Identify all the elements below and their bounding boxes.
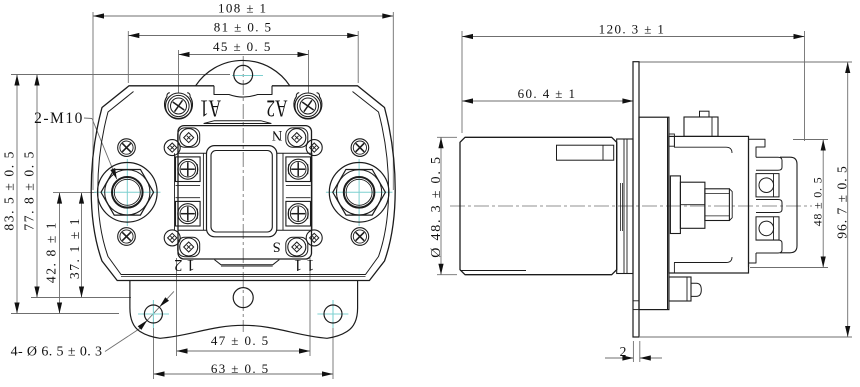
svg-text:108 ± 1: 108 ± 1 [218,1,267,16]
svg-text:60. 4 ± 1: 60. 4 ± 1 [518,86,577,101]
svg-text:Ø 48. 3 ± 0. 5: Ø 48. 3 ± 0. 5 [429,155,444,258]
svg-text:37. 1 ± 1: 37. 1 ± 1 [67,217,82,279]
svg-text:45 ± 0. 5: 45 ± 0. 5 [213,39,272,54]
svg-text:96. 7 ± 0. 5: 96. 7 ± 0. 5 [835,165,850,238]
svg-text:83. 5 ± 0. 5: 83. 5 ± 0. 5 [2,150,17,231]
svg-text:1 2: 1 2 [174,256,195,275]
svg-text:120. 3 ± 1: 120. 3 ± 1 [599,22,666,37]
svg-text:2-M10: 2-M10 [34,110,84,127]
svg-text:N: N [271,127,282,143]
svg-text:47 ± 0. 5: 47 ± 0. 5 [211,333,270,348]
svg-text:4- Ø 6. 5 ± 0. 3: 4- Ø 6. 5 ± 0. 3 [11,344,103,359]
svg-text:81 ± 0. 5: 81 ± 0. 5 [214,19,273,34]
svg-text:63 ± 0. 5: 63 ± 0. 5 [211,361,270,376]
svg-text:48 ± 0. 5: 48 ± 0. 5 [811,177,825,227]
svg-text:1 1: 1 1 [294,256,315,275]
svg-text:42. 8 ± 1: 42. 8 ± 1 [44,221,59,283]
svg-text:A1: A1 [200,95,221,123]
svg-text:77. 8 ± 0. 5: 77. 8 ± 0. 5 [22,150,37,231]
svg-text:S: S [273,239,281,255]
svg-text:A2: A2 [266,95,287,123]
